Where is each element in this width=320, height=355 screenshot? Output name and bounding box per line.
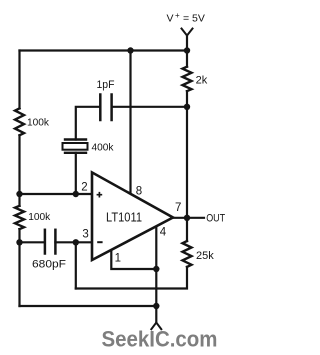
wire 25k bottom feedback [76, 267, 187, 289]
wire bottom rail [20, 305, 157, 307]
op-amp plus input mark [97, 192, 103, 198]
wire pin2 input [20, 193, 93, 195]
wire 1pF right lead [112, 106, 187, 108]
node dot 2k bottom [184, 104, 190, 110]
wire pin4 vertical [155, 224, 157, 323]
resistor R4 25k [183, 241, 192, 267]
svg-text:100k: 100k [27, 116, 50, 128]
svg-text:7: 7 [175, 202, 181, 214]
wire pin7 output [173, 217, 204, 219]
wire output vertical [186, 91, 188, 241]
wire pin3 input right [55, 241, 92, 243]
svg-text:3: 3 [82, 229, 88, 241]
wire top rail [20, 49, 188, 51]
wire pin3 branch down [75, 242, 77, 288]
svg-text:1pF: 1pF [97, 79, 115, 91]
svg-text:25k: 25k [196, 250, 214, 262]
node dot pin3 branch [73, 239, 79, 245]
capacitor C2 680pF [45, 230, 56, 254]
node dot bottom rail [153, 303, 159, 309]
wire pin1 lead [111, 249, 156, 270]
svg-text:OUT: OUT [206, 213, 225, 225]
svg-text:LT1011: LT1011 [106, 210, 142, 224]
node dot left pin3 [16, 239, 22, 245]
svg-text:1: 1 [115, 252, 121, 264]
svg-text:100k: 100k [28, 211, 51, 223]
resistor R2 100k [15, 206, 24, 229]
svg-text:8: 8 [136, 185, 142, 197]
svg-text:4: 4 [160, 227, 167, 239]
node dot pin1 pin4 [153, 266, 159, 272]
wire crystal lower lead [75, 153, 77, 194]
node dot pin7 output [184, 215, 190, 221]
svg-text:2k: 2k [196, 75, 208, 87]
wire left vertical lower segment [18, 229, 20, 306]
wire pin8 vertical [129, 51, 131, 197]
node dot crystal pin2 [73, 191, 79, 197]
op-amp U1 LT1011 [92, 172, 173, 260]
wire left vertical middle segment [18, 135, 20, 206]
wire left vertical upper segment [18, 51, 20, 109]
capacitor C1 1pF [100, 95, 111, 121]
node dot top rail pin8 [127, 47, 133, 53]
V+ supply arrow [182, 29, 193, 36]
wire V+ to rail [186, 36, 188, 67]
svg-text:+: + [175, 11, 180, 20]
svg-text:V: V [167, 12, 174, 24]
svg-text:400k: 400k [92, 141, 115, 153]
svg-text:= 5V: = 5V [183, 12, 205, 24]
wire 1pF left lead [76, 107, 101, 140]
op-amp minus input mark [97, 241, 102, 243]
node dot left pin2 [16, 191, 22, 197]
resistor R3 2k [183, 67, 192, 91]
ground arrow [151, 323, 161, 330]
svg-text:2: 2 [81, 181, 87, 193]
svg-text:680pF: 680pF [32, 259, 66, 271]
crystal Y1 400k [63, 140, 88, 153]
svg-text:SeekIC.com: SeekIC.com [102, 327, 218, 352]
wire pin3 input left [20, 241, 45, 243]
node dot top rail V+ [184, 47, 190, 53]
resistor R1 100k [15, 108, 24, 135]
